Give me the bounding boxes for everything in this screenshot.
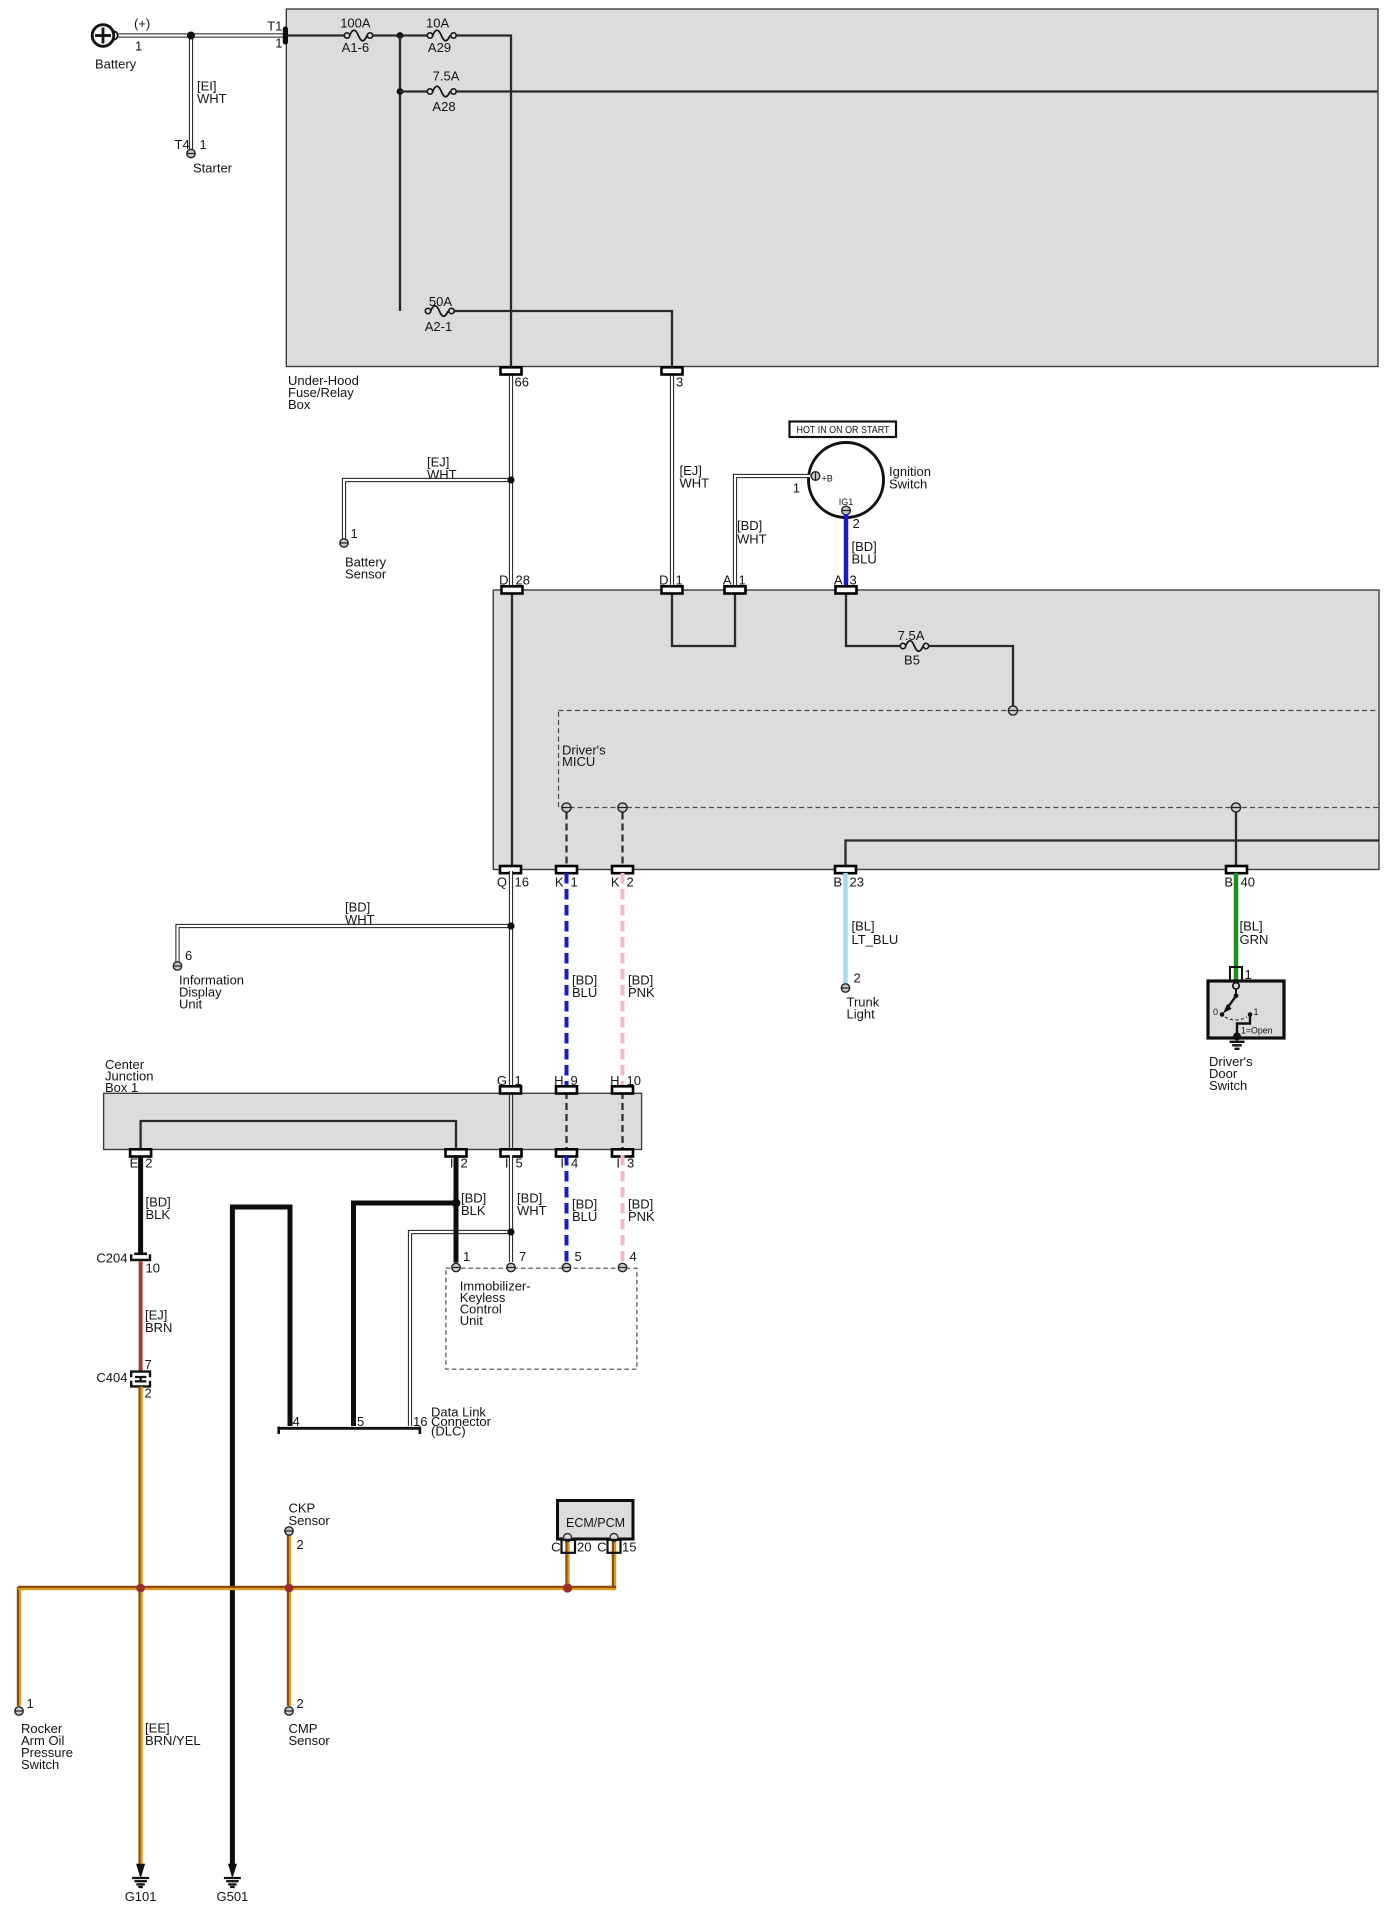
rocker arm oil pressure switch [15,1696,73,1772]
svg-text:2: 2 [297,1696,304,1711]
svg-text:I: I [450,1156,454,1171]
dashed wire MICU pin to K2 [621,813,623,867]
fuse A29 10A [426,16,456,56]
svg-text:2: 2 [145,1386,152,1401]
svg-text:A: A [834,572,843,587]
wire ECM C15 down [613,1541,615,1587]
terminal 66 [501,367,529,389]
dashed wire MICU pin to K1 [565,813,567,867]
fuse B5 7.5A [898,628,929,668]
label [BD] BLK (E2) [146,1195,171,1223]
svg-text:C: C [597,1540,606,1555]
svg-text:I: I [505,1156,509,1171]
svg-text:1: 1 [351,526,358,541]
svg-text:I: I [560,1156,564,1171]
label [BD] PNK (K2) [628,973,655,1001]
junction orange at C20 wire [563,1583,572,1592]
immobilizer-keyless control unit [446,1268,637,1369]
fuse A2-1 50A [425,294,454,334]
svg-text:A29: A29 [428,40,451,55]
svg-text:(DLC): (DLC) [431,1424,466,1439]
wire T1 to fuse A1-6 [288,34,344,36]
svg-text:BLK: BLK [146,1207,171,1222]
svg-text:1: 1 [1254,1007,1259,1017]
junction on I2 wire [452,1199,461,1208]
wire B5 to MICU pin [929,646,1013,706]
wire I2 to immobilizer pin 1 black [454,1155,459,1263]
svg-text:HOT IN ON OR START: HOT IN ON OR START [797,424,890,436]
label [BD] BLU (K1) [572,973,597,1001]
svg-text:20: 20 [577,1540,591,1555]
svg-text:B5: B5 [904,653,920,668]
svg-text:ECM/PCM: ECM/PCM [566,1516,625,1530]
wire E2 to C204 black [138,1157,143,1254]
terminal E2 [130,1149,153,1170]
label [EE] BRN/YEL [145,1721,201,1749]
svg-text:WHT: WHT [517,1203,547,1218]
svg-text:9: 9 [571,1073,578,1088]
battery [92,16,150,72]
svg-text:Unit: Unit [179,997,203,1012]
junction on I5 wire [507,1228,514,1235]
label [BD] WHT (A1) [737,518,767,547]
fuse A1-6 100A [340,16,372,56]
svg-text:Unit: Unit [460,1313,484,1328]
wire battery to terminal T1 [118,33,283,37]
svg-text:+B: +B [822,474,833,484]
svg-text:G: G [497,1073,507,1088]
svg-text:H: H [554,1073,563,1088]
svg-text:3: 3 [850,572,857,587]
svg-text:1: 1 [135,39,142,54]
svg-text:7.5A: 7.5A [898,628,925,643]
terminal D28 [499,572,530,593]
svg-text:2: 2 [297,1537,304,1552]
label [EI] WHT [197,79,227,107]
svg-text:A28: A28 [432,99,455,114]
svg-text:1: 1 [463,1249,470,1264]
wire B40 to door switch green [1234,873,1239,982]
terminal I2 [446,1149,468,1170]
ground G101 [125,1865,157,1905]
terminal D1 [659,572,683,593]
svg-text:0: 0 [1213,1007,1218,1017]
starter [175,137,233,176]
svg-text:100A: 100A [340,16,371,31]
ignition pin IG1 [839,497,860,531]
svg-text:7: 7 [145,1357,152,1372]
junction orange at C404 wire [136,1584,145,1593]
immobilizer pin 4 [618,1249,636,1272]
svg-text:10: 10 [146,1261,160,1276]
svg-text:40: 40 [1241,875,1255,890]
junction battery wire [187,32,195,40]
svg-text:16: 16 [413,1414,427,1429]
svg-text:3: 3 [627,1156,634,1171]
svg-text:H: H [610,1073,619,1088]
svg-text:5: 5 [357,1414,364,1429]
svg-text:WHT: WHT [680,476,710,491]
wire IG1 to A3 blue [844,514,849,588]
wire junction to DLC 16 white [410,1232,511,1426]
label [EJ] WHT (3-D1) [680,463,710,491]
wire K2 to H10 pink dashed [621,873,625,1086]
junction bus at A28 [397,88,404,95]
driver's door switch [1208,981,1284,1093]
wire B23 to trunk light [843,873,848,984]
svg-text:15: 15 [622,1540,636,1555]
driver's MICU outer box [493,590,1379,870]
svg-text:10: 10 [627,1073,641,1088]
terminal B40 [1224,866,1255,890]
data link connector DLC [279,1405,492,1439]
junction on Q16 wire [507,922,514,929]
svg-text:A1-6: A1-6 [342,40,369,55]
svg-text:7.5A: 7.5A [433,69,460,84]
terminal I3 [612,1149,634,1170]
label [BD] WHT (I5) [517,1191,547,1219]
svg-text:2: 2 [853,516,860,531]
svg-text:WHT: WHT [737,532,767,547]
terminal I5 [501,1149,523,1170]
svg-text:2: 2 [145,1156,152,1171]
vertical bus in box1 [399,36,401,312]
svg-text:1: 1 [793,481,800,496]
wire B23 inside box [846,841,1380,867]
CKP sensor [285,1501,331,1553]
wire I5 to immobilizer pin 7 white [509,1155,513,1262]
wire DLC 4 to G501 black [232,1207,290,1865]
svg-text:3: 3 [676,375,683,390]
wire C204 to C404 brown [139,1262,143,1371]
immobilizer pin 5 [562,1249,581,1272]
terminal A1 [723,572,746,593]
terminal G1 [497,1073,522,1094]
trunk light [841,971,879,1022]
svg-text:T1: T1 [267,19,282,34]
terminal K1 [555,866,578,890]
terminal 3 [662,367,684,389]
terminal H10 [610,1073,641,1094]
svg-text:C404: C404 [96,1370,127,1385]
svg-text:B: B [833,875,842,890]
ground G501 [216,1865,248,1905]
svg-text:5: 5 [575,1249,582,1264]
svg-text:D: D [659,572,668,587]
wire C404 to G101 brown/yellow [140,1387,142,1867]
svg-text:Box: Box [288,397,311,412]
svg-text:4: 4 [630,1249,637,1264]
svg-text:E: E [130,1156,139,1171]
wire Q16 to G1 [509,871,513,1088]
wire G1 to I5 inside junction box [509,1092,513,1150]
MICU pin (from B5) [1008,706,1017,715]
wire to battery sensor [344,480,511,539]
svg-text:23: 23 [850,875,864,890]
svg-text:10A: 10A [426,16,449,31]
svg-text:Switch: Switch [21,1757,59,1772]
terminal K2 [611,866,634,890]
svg-text:1: 1 [275,36,282,51]
svg-text:PNK: PNK [628,985,655,1000]
terminal A3 [834,572,857,593]
junction bus top [397,32,404,39]
svg-text:Starter: Starter [193,161,233,176]
svg-text:T4: T4 [175,137,190,152]
svg-text:BRN/YEL: BRN/YEL [145,1733,201,1748]
svg-text:4: 4 [293,1414,300,1429]
connector C204 [96,1251,160,1276]
wire ECM C20 down [566,1541,568,1587]
label [EJ] WHT (66-D28) [427,455,457,483]
wire A1-6 to junction [373,34,428,36]
svg-text:BLU: BLU [572,985,597,1000]
svg-text:BLK: BLK [461,1203,486,1218]
wire A28 to right edge [456,90,1377,92]
svg-text:BLU: BLU [852,552,877,567]
svg-text:LT_BLU: LT_BLU [852,932,899,947]
svg-text:16: 16 [515,875,529,890]
door switch connector pin 1 [1230,967,1252,982]
wire I4 to immobilizer pin 5 blue dashed [565,1155,569,1262]
svg-text:BLU: BLU [572,1209,597,1224]
svg-text:1: 1 [571,875,578,890]
svg-text:1: 1 [200,137,207,152]
wire junction to starter [189,36,193,150]
svg-text:2: 2 [461,1156,468,1171]
wire bus to fuse A28 [400,90,427,92]
svg-text:4: 4 [571,1156,578,1171]
svg-text:1=Open: 1=Open [1241,1026,1273,1036]
svg-text:Switch: Switch [889,477,927,492]
svg-text:Light: Light [847,1007,876,1022]
svg-text:2: 2 [627,875,634,890]
label [BL] LT_BLU [852,919,899,948]
svg-text:G101: G101 [125,1889,157,1904]
svg-text:(+): (+) [134,16,150,31]
battery sensor [340,526,387,582]
MICU pin K2 [618,803,627,812]
terminal H9 [554,1073,578,1094]
connector C404 [96,1357,151,1401]
svg-text:A2-1: A2-1 [425,319,452,334]
svg-text:B: B [1224,875,1233,890]
ignition switch [809,443,931,518]
driver's MICU dashed box [559,711,1380,808]
svg-text:Q: Q [497,875,507,890]
svg-text:A: A [723,572,732,587]
wire to information display unit [178,926,512,962]
wire A29 to terminal 66 [456,36,511,367]
label [BD] BLU (IG1) [852,539,877,567]
immobilizer pin 7 [507,1249,526,1272]
svg-text:G501: G501 [216,1889,248,1904]
svg-text:1: 1 [27,1696,34,1711]
immobilizer pin 1 [452,1249,470,1272]
terminal T1 [267,19,288,51]
label [BD] BLU (I4) [572,1197,597,1225]
wire MICU pin to B40 [1235,812,1237,866]
ECM terminal C15 [597,1540,636,1555]
svg-text:Sensor: Sensor [289,1513,331,1528]
wire D28 to Q16 inside MICU box [511,592,513,867]
svg-text:K: K [555,875,564,890]
svg-text:50A: 50A [429,294,452,309]
svg-text:PNK: PNK [628,1209,655,1224]
label [BD] BLK (I2) [461,1191,486,1219]
svg-text:Battery: Battery [95,57,137,72]
svg-text:5: 5 [516,1156,523,1171]
junction on 66-D28 wire [507,476,514,483]
ignition pin +B [793,472,833,496]
label [EJ] BRN [145,1308,172,1336]
brown/yellow trunk wire horizontal [18,1587,616,1589]
svg-text:K: K [611,875,620,890]
wire CKP sensor to CMP sensor [288,1535,290,1706]
svg-text:BRN: BRN [145,1320,172,1335]
label [BD] WHT (IDU) [345,900,375,928]
svg-text:Sensor: Sensor [289,1733,331,1748]
hot in on or start tag [790,422,897,438]
wire 66 to D28 [509,371,513,588]
svg-text:Sensor: Sensor [345,567,387,582]
svg-text:D: D [499,572,508,587]
svg-text:I: I [616,1156,620,1171]
svg-text:GRN: GRN [1240,932,1269,947]
terminal Q16 [497,866,529,890]
under-hood fuse/relay box [286,9,1378,412]
wire A3 to fuse B5 [846,592,900,646]
wire E2 to I2 inside junction box [141,1121,456,1148]
wire I3 to immobilizer pin 4 pink dashed [621,1155,625,1262]
svg-text:1: 1 [676,572,683,587]
dashed wire H10 to I3 inside junction box [621,1092,623,1150]
wire A1 to ignition +B [735,476,810,588]
wire A2-1 to terminal 3 [454,311,672,366]
svg-text:WHT: WHT [197,91,227,106]
wire D1 to A1 inside MICU box [672,592,735,646]
svg-text:C: C [551,1540,560,1555]
ECM terminal C20 [551,1540,591,1555]
junction orange at CKP wire [285,1584,294,1593]
terminal B23 [833,866,864,890]
label [BL] GRN [1240,919,1269,948]
fuse A28 7.5A [427,69,459,115]
svg-text:1: 1 [515,1073,522,1088]
MICU pin B40 [1231,803,1240,812]
MICU pin K1 [562,803,571,812]
CMP sensor [285,1696,331,1748]
wire K1 to H9 blue dashed [565,873,569,1086]
svg-text:6: 6 [185,948,192,963]
wire to rocker arm oil pressure switch [18,1587,20,1706]
svg-text:Switch: Switch [1209,1078,1247,1093]
wire 3 to D1 [670,371,674,588]
wire I2 branch to DLC 5 black [354,1203,457,1426]
information display unit [173,948,244,1012]
terminal I4 [556,1149,578,1170]
svg-text:2: 2 [854,971,861,986]
svg-text:1: 1 [739,572,746,587]
svg-text:Box 1: Box 1 [105,1080,138,1095]
svg-text:7: 7 [519,1249,526,1264]
svg-text:66: 66 [515,375,529,390]
center junction box 1 [104,1057,642,1150]
svg-text:MICU: MICU [562,754,595,769]
label [BD] PNK (I3) [628,1197,655,1225]
svg-text:28: 28 [516,572,530,587]
ECM/PCM [558,1501,634,1542]
dashed wire H9 to I4 inside junction box [565,1092,567,1150]
svg-text:WHT: WHT [345,912,375,927]
svg-text:C204: C204 [96,1251,127,1266]
